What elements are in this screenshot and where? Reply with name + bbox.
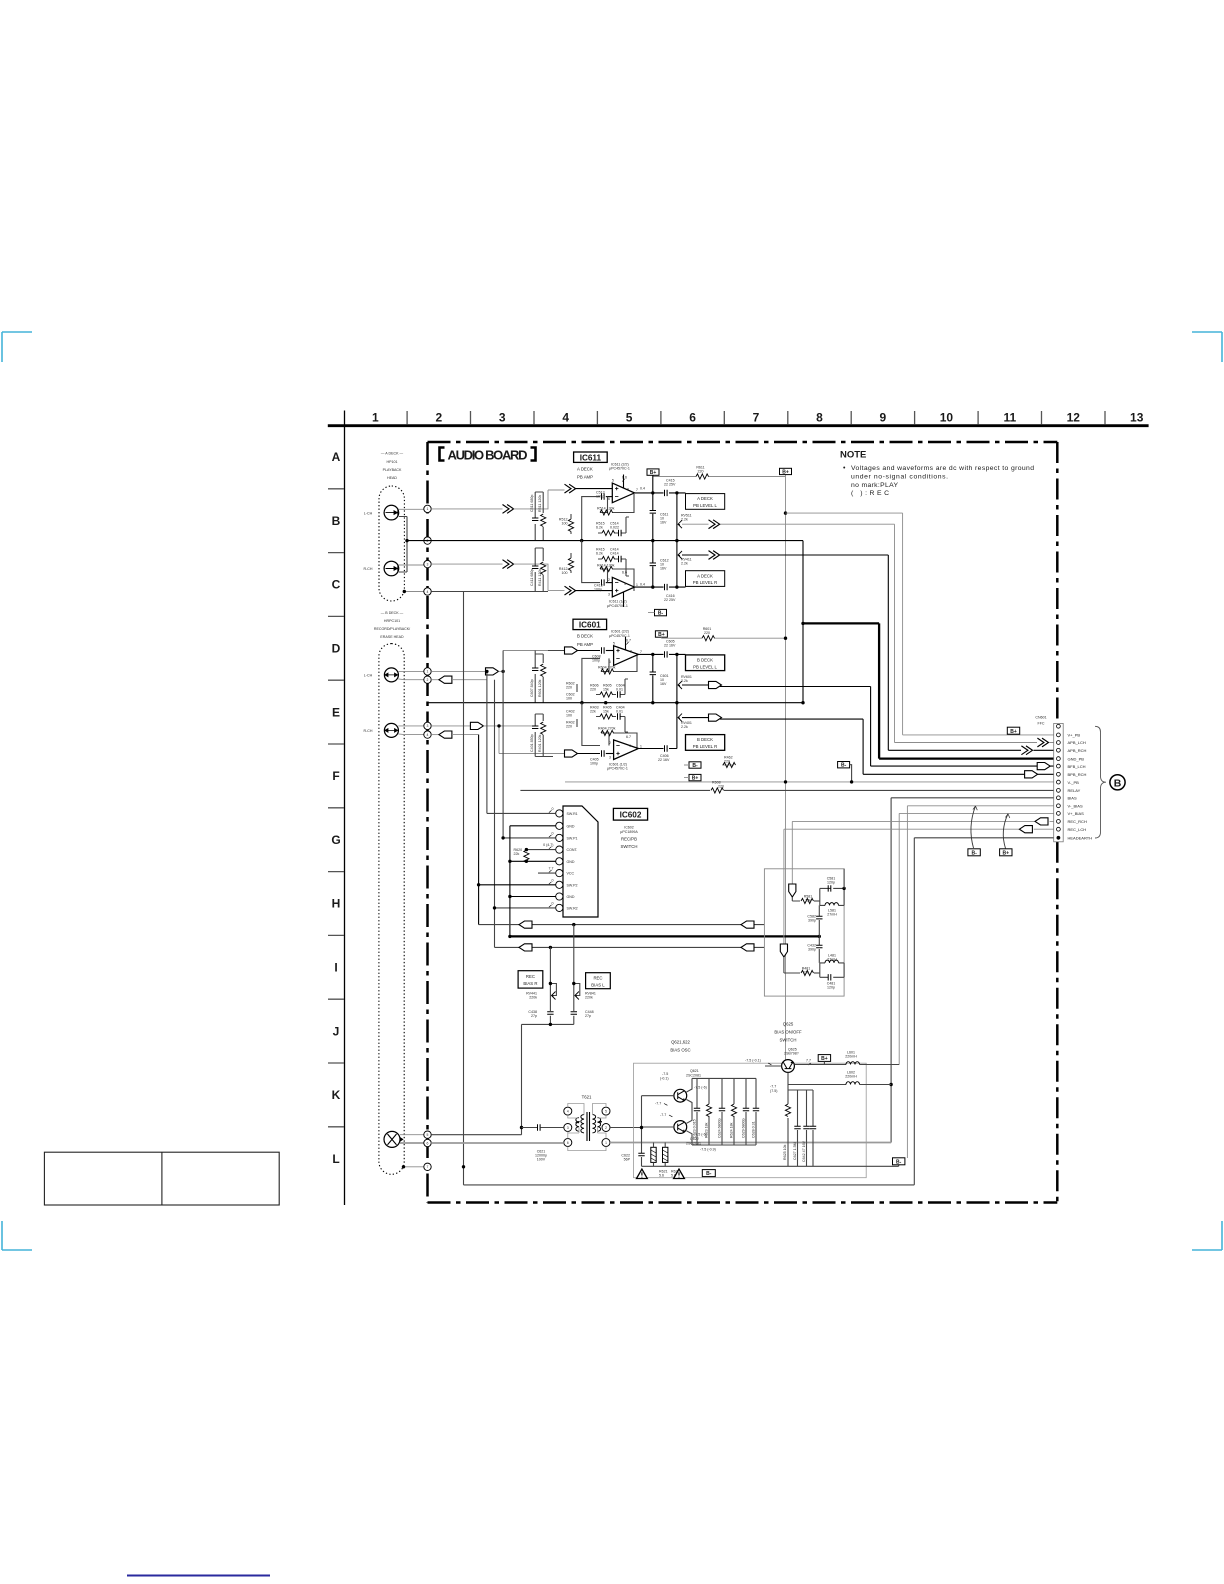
svg-text:11: 11 [1003, 411, 1016, 425]
IC602 pin GND [556, 822, 563, 829]
svg-text:6.7: 6.7 [626, 735, 631, 739]
svg-text:PB AMP: PB AMP [577, 642, 593, 647]
svg-text:PB LEVEL L: PB LEVEL L [693, 503, 717, 508]
svg-text:4: 4 [629, 744, 631, 748]
LC trap enclosure [764, 869, 844, 996]
svg-text:VCC: VCC [567, 872, 575, 876]
IC602 pin wires [487, 812, 556, 814]
REC_LCH feed down to trap2 [783, 829, 785, 944]
op-amp U601B (B deck R) [609, 740, 642, 760]
signal arrow L-CH input [503, 505, 514, 514]
C413 100p [602, 579, 605, 585]
column tick marks [407, 411, 1105, 424]
svg-text:GND: GND [567, 895, 575, 899]
svg-text:6.2k: 6.2k [596, 526, 603, 530]
svg-text:BIAS: BIAS [1068, 796, 1077, 801]
wire: APB_LCH to connector [895, 524, 1057, 742]
wire: BFB_LCH to connector [871, 687, 1057, 767]
svg-text:3: 3 [427, 724, 429, 728]
svg-text:IC601: IC601 [579, 621, 601, 630]
Q625 collector down [787, 1073, 789, 1091]
svg-text:SW.R2: SW.R2 [567, 907, 578, 911]
svg-text:1: 1 [372, 411, 379, 425]
svg-text:-7.7: -7.7 [660, 1113, 666, 1117]
registration mark bottom-left [2, 1221, 32, 1250]
B- flag feeding V-_PB [838, 762, 850, 768]
bias osc ladder R624 18k [733, 1078, 735, 1145]
svg-text:GND: GND [567, 860, 575, 864]
T621 primary winding [581, 1115, 584, 1133]
svg-text:RECORD/PLAYBACK/: RECORD/PLAYBACK/ [374, 627, 410, 631]
svg-text:13: 13 [1130, 411, 1144, 425]
svg-text:B+: B+ [821, 1056, 828, 1062]
svg-text:5: 5 [427, 1133, 429, 1137]
wire: A deck head ground stubs [399, 517, 407, 573]
C405 100p [602, 750, 605, 756]
B deck erase head (X) [384, 1131, 404, 1147]
svg-text:220: 220 [590, 688, 596, 692]
svg-text:μPC4570C-1: μPC4570C-1 [609, 634, 630, 638]
wire: B deck shield to pin 7 [404, 1166, 424, 1168]
svg-text:1: 1 [427, 507, 429, 511]
bias bottom rail [642, 1165, 899, 1167]
svg-text:100: 100 [566, 697, 572, 701]
svg-text:16V: 16V [660, 682, 667, 686]
R622 5.6 fusible [663, 1147, 668, 1162]
rec line R with left arrows [479, 924, 765, 926]
bias osc component ladder [692, 1078, 756, 1145]
RV441 220k trimmer [549, 947, 551, 1024]
wire: BIAS line from bias coil [891, 798, 1056, 1143]
svg-text:7.7: 7.7 [549, 867, 554, 871]
svg-text:B-: B- [896, 1159, 902, 1165]
Q625 transistor [782, 1060, 795, 1073]
svg-text:L-CH: L-CH [364, 674, 373, 678]
svg-text:-7.5 (-0.1): -7.5 (-0.1) [745, 1059, 761, 1063]
svg-text:B-: B- [706, 1171, 712, 1177]
thick ground bus to GND_PB [803, 623, 1057, 758]
svg-text:5: 5 [605, 1110, 607, 1114]
bias osc ladder C628 0.31 [755, 1078, 757, 1145]
svg-text:J: J [333, 1024, 340, 1038]
op-amp U601A (B deck L) [609, 641, 642, 665]
curved jumper to B- (REC mute) [971, 806, 976, 848]
svg-text:22 16V: 22 16V [664, 644, 676, 648]
top ruler line [328, 424, 1149, 427]
svg-text:— B DECK —: — B DECK — [381, 611, 404, 615]
CN601 pin REC_RCH [1057, 820, 1061, 824]
C601 10/16V [651, 653, 654, 656]
svg-text:8: 8 [627, 488, 629, 492]
svg-text:REC/PB: REC/PB [621, 837, 637, 842]
headearth vertical from A-deck pin4 [463, 592, 465, 1185]
svg-text:C629 6800p: C629 6800p [742, 1118, 746, 1138]
wire: pin4 return with left arrow [431, 734, 439, 736]
svg-text:8: 8 [816, 411, 823, 425]
C612 10/16V [651, 585, 654, 588]
wires: B deck R-CH head to pins 3,4 [398, 725, 424, 727]
svg-text:C607 840p: C607 840p [530, 679, 534, 697]
svg-text:CN601: CN601 [1035, 716, 1046, 720]
svg-text:1: 1 [636, 583, 638, 587]
svg-text:SWITCH: SWITCH [780, 1038, 797, 1043]
svg-text:μPC4570C-1: μPC4570C-1 [607, 604, 628, 608]
op-amp U611B (A deck R) [608, 577, 638, 597]
svg-text:7: 7 [427, 1165, 429, 1169]
svg-text:K: K [332, 1088, 341, 1102]
output wire U601B with C406 [638, 748, 677, 750]
wires: B deck L-CH head to pins 1,2 [398, 670, 424, 672]
svg-text:REC: REC [593, 975, 602, 980]
svg-text:no mark:PLAY: no mark:PLAY [851, 482, 898, 489]
input RC network C511/R511 [535, 492, 543, 541]
CN601 pin RELAY [1057, 789, 1061, 793]
svg-text:BIAS OSC: BIAS OSC [670, 1048, 690, 1053]
CN601 pin V+_BIAS [1057, 812, 1061, 816]
REC_RCH feed down to trap [791, 821, 793, 884]
svg-text:PB LEVEL L: PB LEVEL L [693, 664, 717, 669]
svg-text:SW.P2: SW.P2 [567, 883, 578, 887]
B+ rail with R601a 220 [661, 637, 785, 638]
T621 winding arrows [576, 1121, 602, 1123]
svg-text:4: 4 [427, 590, 429, 594]
svg-text:4: 4 [567, 1110, 569, 1114]
CN601 connector body [1054, 723, 1064, 841]
svg-text:27mH: 27mH [827, 912, 837, 916]
B+ flag (IC611) [647, 469, 659, 475]
A deck head shield (dotted) [379, 486, 404, 601]
ground riser x509.9 [509, 826, 511, 937]
IC602 pin SW.R2 [556, 904, 563, 911]
wire Q625 emitter to L601 [795, 1064, 847, 1066]
svg-text:PB LEVEL R: PB LEVEL R [693, 580, 717, 585]
svg-text:8: 8 [630, 650, 632, 654]
joint rail to bias coupling cap [431, 1024, 574, 1134]
CN601 pin BPB_RCH [1057, 772, 1061, 776]
svg-text:PB LEVEL R: PB LEVEL R [693, 744, 717, 749]
wires: erase head to pins 5,6 [400, 1134, 424, 1136]
svg-text:R625 10k: R625 10k [783, 1144, 787, 1160]
svg-text:3: 3 [609, 756, 611, 760]
Q622 2SC2081 [674, 1121, 687, 1134]
C621 12000p 100V bias coupling cap [538, 1124, 541, 1130]
wire: RELAY line [520, 789, 1056, 791]
svg-text:B DECK: B DECK [577, 634, 593, 639]
wire to Q625 base [765, 1065, 782, 1067]
C448 27p [571, 1012, 577, 1015]
warning triangle left [637, 1169, 648, 1178]
svg-text:R624 18k: R624 18k [730, 1122, 734, 1138]
B- flag at V-_BIAS [893, 1158, 905, 1165]
svg-text:R404 270k: R404 270k [598, 727, 616, 731]
C513 100p input cap [602, 493, 605, 499]
B deck R-CH rec/pb head [364, 723, 399, 737]
svg-text:V+_PB: V+_PB [1068, 733, 1081, 738]
svg-text:2.2k: 2.2k [681, 562, 688, 566]
wiper wire to APB_RCH with signal arrow [682, 554, 888, 556]
svg-text:220: 220 [704, 631, 710, 635]
svg-text:3: 3 [427, 562, 429, 566]
svg-text:0: 0 [552, 902, 554, 906]
CN601 pin APB_LCH [1057, 741, 1061, 745]
svg-text:6: 6 [689, 411, 696, 425]
Q621 base/collector wires [642, 1078, 693, 1127]
svg-text:A DECK: A DECK [577, 466, 593, 471]
svg-text:A DECK: A DECK [697, 496, 713, 501]
svg-text:C623 0.015: C623 0.015 [693, 1119, 697, 1138]
B-deck R channel: pin3 input [431, 725, 470, 727]
svg-text:2SB798?: 2SB798? [784, 1052, 799, 1056]
CN601 pin V-_BIAS [1057, 804, 1061, 808]
B deck head shield (dotted, tall) [379, 644, 404, 1175]
svg-text:2SC2081: 2SC2081 [686, 1073, 701, 1077]
A-deck ground bus (pin2) [407, 541, 803, 703]
svg-text:27p: 27p [585, 1014, 591, 1018]
svg-text:RELAY: RELAY [1068, 788, 1081, 793]
svg-text:SW.P1: SW.P1 [567, 837, 578, 841]
svg-text:15k: 15k [603, 710, 609, 714]
left bus: pin4 line down to SW.P2 and rec line [478, 735, 480, 925]
IC602 label box [613, 808, 647, 820]
svg-text:V+_BIAS: V+_BIAS [1068, 811, 1085, 816]
svg-text:APB_LCH: APB_LCH [1068, 740, 1086, 745]
svg-text:T621: T621 [582, 1095, 592, 1100]
wire: A deck R-CH head to pin 3 [399, 564, 424, 566]
CN601 pin GND_PB [1057, 757, 1061, 761]
output wire U611B with C416 [635, 586, 686, 588]
B- and B+ flags below IC601 [689, 762, 701, 768]
svg-text:6.2k: 6.2k [596, 552, 603, 556]
svg-text:B-: B- [658, 611, 664, 617]
brace to B [1095, 726, 1106, 838]
rail from pin1 riser to op-amp input [503, 650, 548, 652]
svg-text:ERASE HEAD: ERASE HEAD [380, 635, 404, 639]
svg-text:2: 2 [427, 678, 429, 682]
svg-text:0 (4.7): 0 (4.7) [543, 843, 553, 847]
svg-text:3: 3 [608, 592, 610, 596]
svg-text:100V: 100V [537, 1158, 546, 1162]
svg-text:22k: 22k [590, 710, 596, 714]
svg-text:REC: REC [526, 974, 535, 979]
IC602 pin CONT. [556, 846, 563, 853]
signal arrow into op-amp U611B [565, 586, 576, 595]
svg-text:2: 2 [435, 411, 442, 425]
svg-text:100: 100 [562, 571, 568, 575]
svg-text:100p: 100p [596, 494, 604, 498]
svg-text:E: E [332, 705, 340, 719]
svg-text:7: 7 [636, 488, 638, 492]
svg-text:2: 2 [609, 741, 611, 745]
svg-text:PB AMP: PB AMP [577, 475, 593, 480]
left bus: pin1 rail down to SW.P1 [502, 651, 504, 838]
svg-text:120p: 120p [827, 985, 835, 989]
CN601 pin HEADEARTH [1057, 836, 1061, 840]
curved jumper to B+ [1003, 814, 1008, 849]
circled B reference [1110, 775, 1125, 790]
A deck R-CH playback head [364, 561, 399, 576]
T621 internal connections [568, 1104, 584, 1139]
svg-text:HEADEARTH: HEADEARTH [1068, 836, 1093, 841]
svg-text:GND_PB: GND_PB [1068, 756, 1085, 761]
svg-text:F: F [332, 769, 339, 783]
svg-text:SW.R1: SW.R1 [567, 812, 578, 816]
HEADEARTH routing wire [464, 838, 1057, 1185]
wiper wire to BPB_RCH [682, 718, 863, 720]
RV411 2.2k pot [676, 541, 678, 588]
wire: A deck L-CH head to pin 1 [399, 508, 424, 510]
svg-text:R623 18k: R623 18k [705, 1122, 709, 1138]
wire: V+_BIAS line [899, 813, 1056, 1064]
B+ flag near connector top [1007, 727, 1019, 734]
op-amp U611A power stub to B+ [623, 475, 625, 488]
rec line L with left arrows [495, 946, 765, 948]
op-amp U611B power stub to B- [623, 592, 625, 607]
A DECK PB LEVEL R box [686, 571, 725, 587]
svg-text:C: C [332, 578, 341, 592]
svg-text:μPC4570C-1: μPC4570C-1 [607, 767, 628, 771]
wire: pin4 shield ground rail [431, 591, 531, 593]
svg-text:C414: C414 [610, 552, 619, 556]
input RC network C401/R401 [535, 714, 553, 757]
T621 transformer [564, 1104, 610, 1151]
svg-text:16V: 16V [660, 567, 667, 571]
svg-text:B+: B+ [692, 776, 699, 782]
bias osc ladder R623 18k [708, 1078, 710, 1145]
svg-text:0: 0 [552, 807, 554, 811]
svg-text:100: 100 [562, 522, 568, 526]
svg-text:( ):REC: ( ):REC [851, 490, 889, 497]
CN601 pin REC_LCH [1057, 827, 1061, 831]
svg-text:2.2k: 2.2k [681, 725, 688, 729]
left ruler line [344, 411, 346, 1206]
B+ rail with R611 220 [653, 475, 786, 1066]
registration mark bottom-right [1192, 1221, 1222, 1250]
svg-text:B+: B+ [782, 470, 789, 476]
svg-text:Q621,622: Q621,622 [671, 1040, 690, 1045]
svg-text:5: 5 [612, 479, 614, 483]
svg-text:C628 0.31: C628 0.31 [752, 1121, 756, 1138]
CN601 pin BIAS [1057, 796, 1061, 800]
svg-text:B+: B+ [650, 470, 657, 476]
svg-text:220k: 220k [529, 995, 537, 999]
svg-text:220: 220 [566, 686, 572, 690]
svg-text:1: 1 [427, 670, 429, 674]
svg-text:100p: 100p [590, 761, 598, 765]
svg-text:H: H [332, 897, 341, 911]
svg-text:-7.5: -7.5 [662, 1072, 668, 1076]
svg-text:A: A [332, 450, 341, 464]
svg-text:1: 1 [605, 1141, 607, 1145]
svg-text:C411 680p: C411 680p [530, 569, 534, 586]
svg-text:0.022: 0.022 [610, 526, 619, 530]
svg-text:G: G [331, 833, 340, 847]
svg-text:HRPC101: HRPC101 [384, 619, 400, 623]
svg-text:220: 220 [566, 725, 572, 729]
svg-text:0.01: 0.01 [616, 688, 623, 692]
B+ flag (right, feeds V+_PB) [780, 468, 792, 474]
svg-text:R401 120k: R401 120k [538, 734, 542, 752]
svg-text:220mH: 220mH [845, 1075, 857, 1079]
svg-text:B-: B- [971, 850, 977, 856]
svg-text:Q625: Q625 [783, 1022, 794, 1027]
svg-text:15k: 15k [603, 688, 609, 692]
op-amp U611A (A deck L) [608, 479, 638, 503]
B deck board pins [424, 668, 431, 675]
svg-text:16V: 16V [660, 521, 667, 525]
svg-text:BIAS R: BIAS R [523, 981, 537, 986]
svg-text:REC_LCH: REC_LCH [1068, 827, 1087, 832]
signal arrow into op-amp U1A [565, 484, 576, 493]
wire: BPB_RCH to connector [863, 719, 1056, 774]
svg-text:5: 5 [613, 641, 615, 645]
svg-text:(-0.1): (-0.1) [660, 1076, 669, 1080]
signal arrow into op-amp U601B [565, 750, 578, 757]
C611 10/16V coupling cap on vertical [651, 491, 654, 494]
svg-text:B-: B- [841, 763, 847, 769]
IC602 pin VCC [556, 870, 563, 877]
svg-text:10: 10 [940, 411, 954, 425]
svg-text:GND: GND [567, 824, 575, 828]
wire: T621 pin6 to erase head (thick gray) [431, 1142, 564, 1144]
CN601 pin V+_PB [1057, 733, 1061, 737]
A deck L-CH playback head HP101 [364, 505, 399, 520]
RV841 220k trimmer [573, 925, 575, 1025]
A DECK PB LEVEL L box [686, 494, 725, 510]
svg-text:B+: B+ [1003, 850, 1010, 856]
svg-text:I: I [334, 961, 337, 975]
svg-text:56P: 56P [624, 1158, 631, 1162]
B- flag bottom bias [702, 1170, 715, 1177]
svg-text:HEAD: HEAD [387, 476, 397, 480]
svg-text:B DECK: B DECK [697, 658, 713, 663]
svg-text:2.2k: 2.2k [681, 518, 688, 522]
svg-text:B+: B+ [1010, 729, 1017, 735]
svg-text:390p: 390p [808, 918, 816, 922]
svg-text:C627 1.5M: C627 1.5M [793, 1142, 797, 1160]
svg-text:0: 0 [552, 832, 554, 836]
svg-text:C511 680p: C511 680p [530, 495, 534, 512]
svg-text:L: L [332, 1152, 339, 1166]
svg-text:100p: 100p [594, 587, 602, 591]
wire: V+_PB feed (gray) [784, 511, 787, 514]
wire: REC_RCH (gray) [792, 820, 1056, 822]
B- flag (IC611) [655, 609, 667, 615]
svg-text:5.6: 5.6 [659, 1173, 664, 1177]
bias osc enclosure [634, 1063, 867, 1178]
C608 100p [602, 647, 605, 653]
svg-text:22k: 22k [514, 852, 520, 856]
svg-text:0.4: 0.4 [640, 582, 645, 586]
svg-text:μPC4570C-1: μPC4570C-1 [609, 467, 630, 471]
svg-text:4: 4 [624, 582, 626, 586]
svg-text:120p: 120p [827, 880, 835, 884]
junction: head ground on bus [405, 539, 408, 542]
svg-text:PLAYBACK: PLAYBACK [383, 468, 402, 472]
svg-text:R-CH: R-CH [364, 729, 373, 733]
bias osc ladder C624 6800p [721, 1078, 723, 1145]
thick bias feed bus [510, 935, 819, 937]
T621 core [587, 1112, 590, 1141]
wiper wire to APB_LCH with signal arrow [682, 523, 895, 525]
svg-text:2: 2 [605, 1126, 607, 1130]
C438 27p [547, 1012, 553, 1015]
svg-text:R411 120k: R411 120k [538, 569, 542, 586]
wire: A deck shield to pin 4 [404, 591, 424, 593]
B-deck ground bus [428, 702, 804, 704]
svg-text:AUDIO BOARD: AUDIO BOARD [448, 448, 528, 463]
B deck L-CH rec/pb head [364, 668, 399, 682]
svg-text:6.7: 6.7 [626, 638, 631, 642]
